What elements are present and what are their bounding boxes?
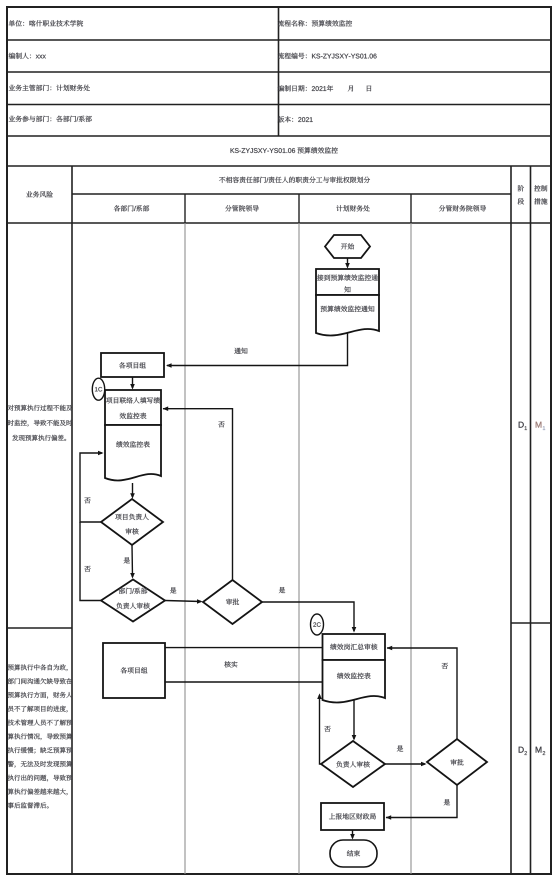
label 核实 — [224, 661, 237, 667]
column header 业务风险 — [26, 191, 53, 197]
header cell 编制日期 — [278, 85, 333, 91]
label 通知 — [234, 348, 247, 354]
header cell 编制人 — [9, 53, 46, 59]
lane header 分管财务院领导 — [439, 205, 486, 211]
lane divider 1 — [184, 194, 186, 223]
process box 各项目组 first — [101, 353, 164, 377]
wire form to leader-review — [132, 483, 134, 497]
wire verify lower — [165, 681, 323, 683]
risk text 2 — [8, 664, 68, 671]
stage marker D1 — [519, 422, 524, 428]
terminator 开始 — [325, 235, 370, 258]
header row line 1 — [7, 39, 551, 41]
decision 审批 first — [203, 580, 262, 624]
wire no-return from dept review — [80, 522, 101, 601]
document 绩效监控表 first — [105, 425, 161, 480]
wire approval-1 no-return — [163, 409, 233, 580]
header cell 流程编号 — [278, 53, 377, 59]
label 是 second — [170, 587, 176, 593]
label 否 approval-1 — [218, 421, 224, 427]
label 否 reviewer — [324, 726, 330, 732]
wire groups to fill-form — [132, 377, 134, 388]
process box 接到预算绩效监控通知 — [316, 269, 379, 295]
header row line 2 — [7, 71, 551, 73]
lane header 各部门/系部 — [114, 205, 149, 211]
connector 1C — [92, 378, 104, 400]
decision 负责人审核 second — [321, 741, 385, 787]
header cell 版本 — [278, 116, 313, 122]
header row line 4 — [7, 135, 551, 137]
label 否 approval-2 — [442, 663, 448, 669]
header cell 编制日期 日 — [367, 86, 371, 92]
decision 项目负责人审核 — [101, 499, 163, 545]
risk rows divider — [7, 627, 72, 629]
document 绩效监控表 second — [323, 660, 386, 702]
label 是 approval-2 — [444, 799, 450, 805]
risk text 1 — [8, 405, 73, 411]
matrix header underline — [72, 193, 511, 195]
measure marker M1 — [536, 422, 542, 428]
header column divider — [278, 7, 280, 136]
wire yes to approval 1 — [165, 601, 201, 602]
risk column right edge — [71, 166, 73, 874]
wire report to end — [352, 830, 354, 838]
measure marker M2 — [536, 747, 542, 753]
wire summary to groups-document — [353, 700, 355, 739]
stage column divider — [530, 166, 532, 874]
label 是 reviewer — [397, 745, 403, 751]
process box 绩效岗汇总审核 — [323, 634, 386, 660]
document 预算绩效监控通知 — [316, 295, 379, 335]
wire approval-2 yes to report — [386, 785, 457, 818]
stage rows divider — [511, 622, 551, 624]
wire yes to dept review — [131, 545, 134, 577]
process box 上报地区财政局 — [321, 803, 384, 830]
decision 部门/系部负责人审核 — [101, 580, 165, 622]
decision 审批 second — [427, 739, 487, 785]
wire no-return to document 2 — [320, 695, 322, 764]
title row bottom line — [7, 165, 551, 167]
column header 控制措施 — [534, 185, 547, 191]
wire start to receive-box — [347, 258, 349, 267]
header row line 3 — [7, 104, 551, 106]
label 是 first — [124, 557, 130, 563]
connector 2C — [311, 614, 324, 635]
wire approval-2 no-return to summary — [387, 648, 457, 739]
lane divider 2 — [298, 194, 300, 223]
header cell 流程名称 — [278, 20, 352, 26]
label 否 first — [84, 497, 90, 503]
lane divider 3 — [410, 194, 412, 223]
lane header 计划财务处 — [336, 205, 369, 211]
wire no-return rail — [80, 453, 102, 522]
process box 项目联络人填写绩效监控表 — [105, 390, 161, 425]
wire notify to project groups — [167, 333, 348, 366]
header cell 业务参与部门 — [9, 116, 92, 122]
label 否 second — [84, 566, 90, 572]
lane header bottom line — [7, 222, 551, 224]
header cell 单位 — [9, 20, 83, 26]
header cell 编制日期 月 — [348, 85, 353, 91]
wire verify upper — [165, 647, 323, 649]
terminator 结束 — [330, 840, 377, 867]
header cell 业务主管部门 — [9, 85, 90, 91]
label 是 approval-1 — [279, 587, 285, 593]
process box 各项目组 second — [103, 643, 165, 698]
document title bar — [231, 147, 338, 153]
lane header 分管院领导 — [225, 205, 259, 211]
stage marker D2 — [519, 747, 524, 753]
column header 阶段 — [518, 185, 524, 191]
stage column left edge — [510, 166, 512, 874]
wire yes to approval 2 — [385, 763, 425, 765]
matrix header 不相容责任 — [219, 177, 370, 183]
wire approval-1 yes to summary — [262, 602, 354, 631]
